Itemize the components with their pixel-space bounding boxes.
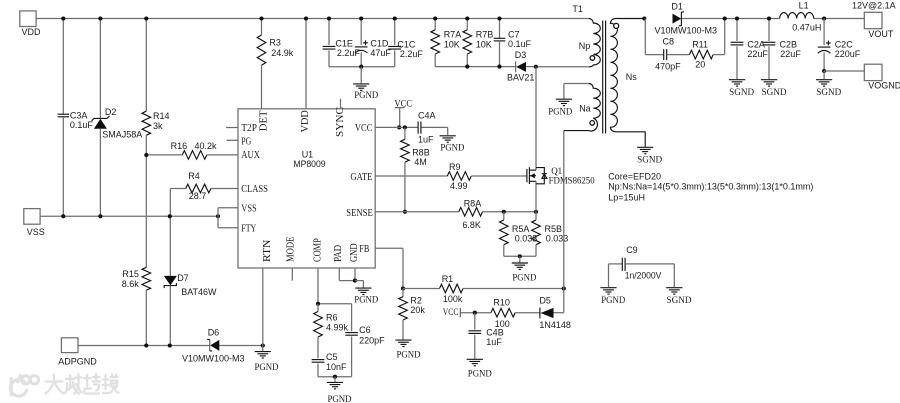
svg-text:R9: R9 bbox=[449, 162, 461, 172]
U1 pin SENSE bbox=[346, 208, 373, 219]
U1 pin PAD bbox=[333, 245, 344, 281]
wire VDD rail bbox=[36, 18, 589, 20]
svg-text:47uF: 47uF bbox=[370, 48, 391, 58]
svg-text:R4: R4 bbox=[188, 171, 200, 181]
transformer T1 core bbox=[603, 21, 606, 134]
wire VSS rail bbox=[40, 215, 218, 217]
resistor R14 bbox=[142, 19, 170, 268]
svg-text:T1: T1 bbox=[572, 4, 583, 14]
U1 pin MODE bbox=[286, 237, 297, 281]
wire VCC pin bbox=[375, 127, 448, 135]
svg-text:20: 20 bbox=[695, 59, 705, 69]
svg-text:C2A: C2A bbox=[747, 40, 765, 50]
resistor R15 bbox=[122, 267, 151, 345]
svg-text:VDD: VDD bbox=[300, 110, 311, 132]
wire Na to PGND bbox=[563, 84, 565, 99]
capacitor C3A bbox=[58, 19, 94, 217]
inductor L1 bbox=[780, 1, 827, 33]
resistor R8B bbox=[401, 125, 430, 214]
ground PGND C4B bbox=[467, 359, 492, 379]
svg-text:D2: D2 bbox=[105, 107, 117, 117]
svg-text:SGND: SGND bbox=[667, 296, 692, 306]
ground PGND comp bbox=[327, 382, 352, 403]
svg-text:10nF: 10nF bbox=[326, 362, 347, 372]
svg-text:Ns: Ns bbox=[626, 72, 637, 82]
svg-text:470pF: 470pF bbox=[655, 61, 681, 71]
U1 pin SYNC bbox=[335, 99, 346, 137]
svg-text:R6: R6 bbox=[326, 312, 338, 322]
svg-text:100k: 100k bbox=[443, 294, 463, 304]
ground PGND C9 bbox=[600, 288, 625, 306]
svg-text:220uF: 220uF bbox=[835, 49, 861, 59]
watermark logo bbox=[11, 374, 119, 396]
svg-text:U1: U1 bbox=[302, 149, 314, 159]
svg-text:R15: R15 bbox=[122, 269, 139, 279]
resistor R4 bbox=[170, 171, 238, 216]
svg-text:DET: DET bbox=[258, 110, 269, 131]
svg-text:PG: PG bbox=[241, 137, 251, 148]
svg-text:R5A: R5A bbox=[512, 224, 530, 234]
svg-text:20k: 20k bbox=[410, 305, 425, 315]
svg-text:BAV21: BAV21 bbox=[507, 73, 534, 83]
svg-text:SYNC: SYNC bbox=[335, 107, 346, 137]
capacitor C2B bbox=[763, 16, 802, 79]
ground PGND C1 bbox=[353, 84, 378, 101]
svg-text:C2C: C2C bbox=[835, 40, 854, 50]
svg-text:28.7: 28.7 bbox=[189, 191, 207, 201]
transformer T1 secondary Ns bbox=[610, 18, 645, 146]
svg-text:VCC: VCC bbox=[355, 123, 373, 134]
svg-text:4.99: 4.99 bbox=[450, 181, 468, 191]
svg-text:PGND: PGND bbox=[440, 144, 464, 154]
net VCC right bbox=[443, 308, 491, 318]
svg-text:2.2uF: 2.2uF bbox=[400, 49, 424, 59]
tvs diode D2 bbox=[92, 19, 143, 217]
svg-text:Lp=15uH: Lp=15uH bbox=[608, 192, 645, 202]
svg-text:RTN: RTN bbox=[262, 240, 273, 262]
svg-text:Core=EFD20: Core=EFD20 bbox=[608, 171, 661, 181]
svg-text:1N4148: 1N4148 bbox=[539, 320, 571, 330]
svg-text:SENSE: SENSE bbox=[346, 208, 373, 219]
port VOUT bbox=[852, 1, 896, 39]
resistor R9 bbox=[447, 162, 527, 191]
svg-text:FDMS86250: FDMS86250 bbox=[549, 175, 595, 185]
U1 pin AUX bbox=[241, 150, 260, 161]
Ns polarity dot bbox=[614, 23, 619, 28]
svg-text:GATE: GATE bbox=[350, 172, 372, 183]
svg-text:220pF: 220pF bbox=[359, 335, 385, 345]
ground PGND RTN bbox=[255, 346, 279, 374]
snubber C8 bbox=[645, 19, 681, 72]
resistor R5B bbox=[532, 212, 569, 256]
svg-text:R7A: R7A bbox=[444, 30, 462, 40]
wire PAD GND link bbox=[339, 279, 363, 288]
port VSS bbox=[24, 209, 45, 238]
svg-text:VDD: VDD bbox=[22, 27, 42, 37]
wire C2C to VOGND bbox=[824, 71, 864, 79]
U1 pin T2P bbox=[226, 123, 257, 134]
svg-text:PGND: PGND bbox=[512, 273, 536, 283]
svg-text:V10MW100-M3: V10MW100-M3 bbox=[655, 26, 718, 36]
U1 pin FB bbox=[359, 244, 369, 255]
diode D5 bbox=[539, 289, 571, 331]
svg-text:MODE: MODE bbox=[286, 237, 297, 262]
svg-text:D5: D5 bbox=[539, 295, 551, 305]
svg-text:C5: C5 bbox=[326, 352, 338, 362]
capacitor C2C bbox=[818, 19, 861, 74]
svg-text:D1: D1 bbox=[671, 1, 683, 11]
U1 pin VCC bbox=[355, 123, 373, 134]
transistor Q1 FDMS86250 bbox=[527, 67, 595, 212]
svg-text:0.1uF: 0.1uF bbox=[508, 39, 532, 49]
U1 pin GND bbox=[349, 244, 360, 281]
svg-text:MP8009: MP8009 bbox=[293, 159, 325, 169]
wire ADPGND rail bbox=[78, 345, 263, 347]
svg-text:R8A: R8A bbox=[464, 198, 482, 208]
svg-text:D7: D7 bbox=[177, 273, 189, 283]
svg-text:R16: R16 bbox=[171, 141, 188, 151]
wire C1 bus bbox=[329, 65, 395, 84]
svg-text:Q1: Q1 bbox=[551, 166, 562, 176]
ground SGND C2A bbox=[729, 80, 754, 98]
svg-text:SGND: SGND bbox=[637, 155, 662, 165]
ground PGND R5 bbox=[512, 263, 537, 283]
wire comp loop top bbox=[316, 302, 352, 306]
U1 pin PG bbox=[227, 137, 252, 148]
svg-text:C1C: C1C bbox=[397, 40, 416, 50]
op-amp U1 MP8009 body bbox=[238, 109, 375, 268]
svg-text:VSS: VSS bbox=[27, 227, 45, 237]
capacitor C6 bbox=[345, 304, 385, 377]
resistor R3 bbox=[257, 16, 308, 65]
svg-text:T2P: T2P bbox=[241, 123, 257, 134]
wire comp loop bottom bbox=[318, 375, 352, 382]
diode D3 bbox=[507, 50, 538, 83]
wire output rail right bbox=[814, 18, 865, 20]
svg-text:GND: GND bbox=[349, 244, 360, 263]
svg-text:1uF: 1uF bbox=[486, 337, 502, 347]
ground PGND Na bbox=[548, 99, 572, 117]
svg-text:VSS: VSS bbox=[241, 204, 256, 215]
wire FB bbox=[375, 248, 405, 290]
resistor R10 bbox=[491, 298, 540, 329]
capacitor C4A bbox=[418, 110, 436, 144]
capacitor C1E bbox=[323, 16, 361, 66]
svg-text:22uF: 22uF bbox=[747, 49, 768, 59]
svg-text:PGND: PGND bbox=[354, 91, 378, 101]
ground PGND R2 bbox=[395, 340, 420, 360]
svg-text:10K: 10K bbox=[476, 39, 492, 49]
schottky diode D7 bbox=[164, 216, 217, 345]
wire VSS-FTY link bbox=[218, 208, 238, 228]
resistor R6 bbox=[314, 304, 349, 359]
svg-text:PGND: PGND bbox=[548, 108, 572, 118]
svg-text:PGND: PGND bbox=[255, 363, 279, 373]
svg-text:FTY: FTY bbox=[241, 224, 256, 235]
svg-text:R10: R10 bbox=[493, 298, 510, 308]
svg-text:40.2k: 40.2k bbox=[195, 141, 218, 151]
svg-text:PAD: PAD bbox=[333, 245, 344, 262]
capacitor C4B bbox=[468, 313, 503, 359]
port VOGND bbox=[864, 64, 900, 91]
svg-text:R5B: R5B bbox=[545, 224, 563, 234]
U1 pin VSS bbox=[241, 204, 256, 215]
svg-text:C2B: C2B bbox=[780, 40, 798, 50]
U1 pin DET bbox=[258, 65, 269, 131]
svg-text:R14: R14 bbox=[153, 111, 170, 121]
resistor R8A bbox=[459, 198, 538, 230]
svg-text:Na: Na bbox=[579, 104, 591, 114]
capacitor C2A bbox=[731, 16, 769, 79]
svg-text:1n/2000V: 1n/2000V bbox=[625, 270, 662, 280]
svg-text:0.1uF: 0.1uF bbox=[70, 120, 94, 130]
svg-text:PGND: PGND bbox=[468, 370, 492, 380]
wire clamp bus bbox=[435, 66, 589, 68]
wire output rail left bbox=[681, 18, 779, 20]
svg-text:C9: C9 bbox=[626, 245, 638, 255]
resistor R7B bbox=[463, 16, 493, 68]
capacitor C1C bbox=[388, 16, 423, 66]
svg-text:Np:Ns:Na=14(5*0.3mm):13(5*0.3m: Np:Ns:Na=14(5*0.3mm):13(5*0.3mm):13(1*0.… bbox=[608, 181, 813, 191]
svg-text:FB: FB bbox=[359, 244, 369, 255]
svg-text:22uF: 22uF bbox=[780, 49, 801, 59]
svg-text:C1D: C1D bbox=[370, 38, 389, 48]
svg-text:PGND: PGND bbox=[354, 295, 378, 305]
svg-text:COMP: COMP bbox=[312, 238, 323, 262]
U1 pin CLASS bbox=[241, 184, 268, 195]
svg-text:R7B: R7B bbox=[476, 30, 494, 40]
U1 pin RTN bbox=[262, 240, 273, 346]
schottky diode D1 bbox=[642, 1, 717, 35]
wire SENSE bbox=[375, 211, 459, 213]
svg-text:2.2uF: 2.2uF bbox=[337, 48, 361, 58]
svg-text:0.033: 0.033 bbox=[515, 234, 538, 244]
wire GATE bbox=[375, 175, 447, 177]
svg-text:C3A: C3A bbox=[70, 111, 88, 121]
ground SGND C2C bbox=[816, 80, 841, 98]
svg-text:0.47uH: 0.47uH bbox=[792, 22, 821, 32]
port ADPGND bbox=[58, 338, 97, 367]
svg-text:R11: R11 bbox=[692, 40, 708, 50]
svg-text:AUX: AUX bbox=[241, 150, 260, 161]
svg-text:L1: L1 bbox=[799, 1, 809, 11]
svg-text:6.8K: 6.8K bbox=[462, 220, 481, 230]
capacitor C5 bbox=[312, 352, 347, 377]
net VCC top bbox=[394, 99, 412, 129]
svg-text:0.033: 0.033 bbox=[546, 234, 569, 244]
Np polarity dot bbox=[590, 56, 595, 61]
svg-text:C4A: C4A bbox=[418, 110, 436, 120]
resistor R5A bbox=[500, 212, 538, 256]
svg-text:1uF: 1uF bbox=[418, 134, 434, 144]
svg-text:V10MW100-M3: V10MW100-M3 bbox=[182, 354, 245, 364]
Na polarity dot bbox=[590, 121, 595, 126]
svg-text:VOGND: VOGND bbox=[868, 81, 900, 91]
svg-text:C1E: C1E bbox=[335, 38, 353, 48]
ground SGND C2B bbox=[761, 80, 787, 98]
U1 pin GATE bbox=[350, 172, 372, 183]
transformer T1 primary Np bbox=[579, 19, 601, 67]
svg-text:8.6k: 8.6k bbox=[122, 279, 140, 289]
svg-text:CLASS: CLASS bbox=[241, 184, 268, 195]
resistor R1 bbox=[403, 274, 566, 304]
port VDD bbox=[20, 11, 41, 37]
svg-text:3k: 3k bbox=[153, 121, 163, 131]
svg-text:ADPGND: ADPGND bbox=[58, 356, 97, 366]
U1 pin FTY bbox=[241, 224, 256, 235]
svg-text:R8B: R8B bbox=[412, 148, 430, 158]
svg-text:C8: C8 bbox=[663, 37, 675, 47]
snubber R11 bbox=[667, 16, 727, 69]
svg-text:C6: C6 bbox=[359, 325, 371, 335]
U1 pin VDD bbox=[300, 19, 311, 133]
svg-text:PGND: PGND bbox=[601, 296, 625, 306]
resistor R2 bbox=[399, 289, 426, 340]
svg-text:PGND: PGND bbox=[328, 395, 352, 403]
transformer T1 aux winding Na bbox=[564, 84, 600, 132]
svg-text:4.99k: 4.99k bbox=[326, 323, 349, 333]
svg-text:SGND: SGND bbox=[729, 88, 754, 98]
svg-text:BAT46W: BAT46W bbox=[181, 287, 217, 297]
ground SGND C9 bbox=[666, 288, 691, 306]
svg-text:10K: 10K bbox=[444, 39, 460, 49]
ground SGND Ns bbox=[637, 147, 662, 165]
wire R5 bus bbox=[504, 254, 536, 262]
capacitor C1D bbox=[355, 16, 392, 66]
resistor R7A bbox=[431, 16, 461, 66]
svg-text:VOUT: VOUT bbox=[868, 29, 894, 39]
svg-text:Np: Np bbox=[579, 41, 591, 51]
ground PGND PAD bbox=[354, 288, 378, 305]
svg-text:VCC: VCC bbox=[394, 99, 412, 109]
wire Na drop bbox=[563, 131, 565, 289]
svg-text:D3: D3 bbox=[515, 50, 527, 60]
schottky diode D6 bbox=[182, 327, 245, 363]
svg-text:24.9k: 24.9k bbox=[271, 48, 294, 58]
U1 pin COMP bbox=[312, 238, 323, 304]
svg-text:D6: D6 bbox=[208, 327, 220, 337]
capacitor C9 bbox=[609, 245, 675, 287]
svg-text:PGND: PGND bbox=[397, 350, 421, 360]
svg-text:VCC: VCC bbox=[443, 308, 459, 318]
resistor R16 bbox=[146, 141, 238, 159]
svg-text:4M: 4M bbox=[414, 157, 427, 167]
svg-text:R1: R1 bbox=[442, 274, 454, 284]
svg-text:12V@2.1A: 12V@2.1A bbox=[852, 1, 896, 11]
transformer T1 note bbox=[608, 171, 813, 202]
svg-text:SGND: SGND bbox=[762, 88, 787, 98]
ground PGND C4A bbox=[440, 136, 465, 154]
capacitor C7 bbox=[494, 16, 532, 68]
junction dots left bbox=[61, 16, 265, 347]
svg-text:R3: R3 bbox=[269, 38, 281, 48]
svg-text:SMAJ58A: SMAJ58A bbox=[102, 130, 142, 140]
svg-text:SGND: SGND bbox=[816, 88, 841, 98]
transformer T1 label bbox=[572, 4, 583, 14]
